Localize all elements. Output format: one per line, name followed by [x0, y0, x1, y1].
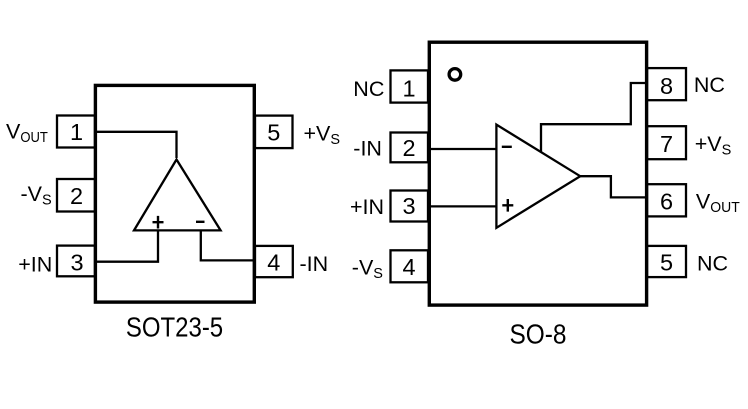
op-amp A1 triangle (SOT23-5): [134, 160, 221, 231]
wire pin4 to minus input (SOT23-5): [201, 230, 255, 260]
pin 2 box (SOT23-5): [57, 179, 95, 212]
wire pin2 to minus input (SO-8): [430, 148, 497, 150]
package U2 SO-8 outline: [429, 42, 646, 305]
pin 2 box (SO-8): [391, 133, 429, 163]
pin 1 box (SO-8): [391, 70, 429, 102]
pin 3 box (SOT23-5): [57, 246, 95, 277]
pin 7 box (SO-8): [647, 126, 686, 159]
svg-text:5: 5: [660, 250, 673, 276]
op-amp A2 triangle (SO-8): [496, 125, 580, 228]
svg-text:2: 2: [70, 183, 83, 209]
svg-text:NC: NC: [694, 73, 725, 97]
svg-text:-IN: -IN: [300, 252, 329, 276]
wire op-amp output to pin 6 (SO-8): [580, 176, 647, 197]
svg-text:+IN: +IN: [18, 253, 52, 277]
op-amp A1 plus input marker: [153, 216, 164, 229]
svg-text:-IN: -IN: [353, 137, 382, 161]
wire top of op-amp to pin 8 (SO-8): [541, 83, 647, 152]
package U1 SOT23-5 outline: [95, 85, 254, 302]
svg-text:NC: NC: [697, 252, 728, 276]
pin 5 box (SOT23-5): [255, 116, 293, 149]
pin 4 box (SOT23-5): [255, 246, 293, 277]
svg-text:7: 7: [660, 131, 673, 157]
pin 1 box (SOT23-5): [57, 116, 95, 148]
svg-text:1: 1: [70, 119, 83, 145]
wire pin3 to plus input (SOT23-5): [95, 230, 158, 261]
pin 6 box (SO-8): [647, 184, 686, 216]
pin 8 box (SO-8): [647, 68, 686, 100]
pin 4 box (SO-8): [391, 250, 429, 282]
svg-text:1: 1: [402, 75, 415, 101]
svg-text:3: 3: [402, 193, 415, 219]
wire pin1 to op-amp output (SOT23-5): [95, 132, 177, 158]
svg-text:2: 2: [402, 135, 415, 161]
svg-text:5: 5: [267, 119, 280, 145]
wire pin3 to plus input (SO-8): [430, 205, 497, 207]
svg-text:3: 3: [70, 250, 83, 276]
op-amp A1 minus input marker: [196, 221, 205, 223]
svg-text:SOT23-5: SOT23-5: [126, 311, 223, 342]
pin 5 box (SO-8): [647, 246, 686, 277]
op-amp A2 minus input marker: [502, 146, 512, 148]
svg-text:NC: NC: [353, 77, 384, 101]
svg-text:SO-8: SO-8: [510, 319, 567, 350]
svg-text:+IN: +IN: [350, 195, 384, 219]
svg-text:8: 8: [660, 73, 673, 99]
pin 3 box (SO-8): [391, 191, 429, 222]
svg-text:4: 4: [402, 254, 415, 280]
svg-text:6: 6: [660, 188, 673, 214]
pin 1 indicator circle (SO-8): [449, 69, 461, 81]
svg-text:4: 4: [267, 249, 280, 275]
op-amp A2 plus input marker: [502, 199, 513, 212]
